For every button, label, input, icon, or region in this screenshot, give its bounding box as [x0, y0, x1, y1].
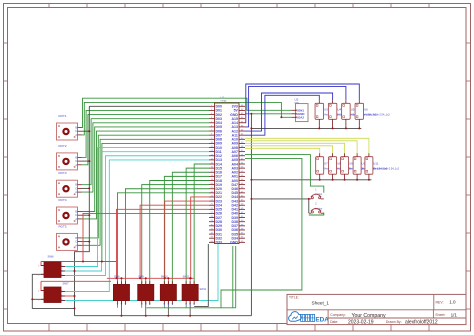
svg-text:D33: D33	[216, 241, 222, 245]
wire 5V rail above SW7	[41, 280, 111, 282]
svg-text:IOA2: IOA2	[297, 116, 304, 120]
svg-text:2: 2	[315, 204, 317, 206]
svg-text:C: C	[75, 187, 77, 190]
wire U1 A13 to header U5 (blue)	[245, 86, 346, 127]
wire SW9 middle pin to GND bus	[145, 301, 147, 316]
wire SW8 pin A to green bus	[116, 305, 118, 308]
header U10	[353, 157, 361, 175]
svg-text:GND: GND	[230, 241, 238, 245]
svg-text:1/1: 1/1	[451, 312, 458, 317]
wire green bottom bus	[147, 307, 236, 309]
svg-text:SW11: SW11	[200, 288, 207, 291]
wire SW6 pin2 to GND	[32, 274, 74, 308]
svg-text:1: 1	[315, 189, 317, 191]
svg-text:C: C	[75, 241, 77, 244]
wire encoder common rail (net COM) to U1 D00	[89, 105, 209, 107]
wire ROT5-A to U1 D07	[82, 135, 210, 238]
svg-text:SW7: SW7	[63, 281, 70, 285]
wire U1 A14 to header U10 (lime)	[245, 141, 357, 153]
wire ROT1-A to U2 pin ION1 (net ENC1A)	[82, 98, 292, 127]
svg-text:ROT4: ROT4	[59, 198, 67, 202]
wire U1 D14 to SW11 top pin	[194, 164, 209, 284]
wire 5V rail above SW6	[41, 261, 116, 263]
wire U1 D25 to 5V bus (red)	[117, 209, 210, 278]
wire U1 A14 to header U4 (blue)	[245, 93, 333, 131]
header U9	[341, 157, 349, 175]
wire U1 to bottom green bus (right loop)	[221, 158, 302, 307]
wire SW7 pin1 feed	[41, 281, 44, 290]
wire U1 D20 to SW8 top pin	[125, 189, 209, 285]
wire 5V stub to SW9	[145, 278, 147, 284]
svg-text:C: C	[75, 160, 77, 163]
svg-text:ROT2: ROT2	[59, 144, 67, 148]
svg-text:Company:: Company:	[330, 313, 346, 317]
wire ROT4-B to U1 D06	[82, 131, 210, 219]
svg-text:U9: U9	[349, 161, 353, 165]
svg-text:U11: U11	[373, 161, 378, 165]
svg-text:SW6: SW6	[48, 255, 55, 259]
header U8	[329, 157, 337, 175]
svg-text:C: C	[75, 214, 77, 217]
wire U1 A12 to header U6 (blue)	[245, 84, 359, 123]
svg-text:Date:: Date:	[330, 320, 338, 324]
header U5	[342, 103, 351, 119]
wire SW6 pin C to U1 D11	[61, 152, 209, 271]
svg-text:ROT1: ROT1	[59, 114, 67, 118]
wire SW10 pin A to green bus	[163, 305, 165, 308]
svg-text:TITLE:: TITLE:	[289, 296, 299, 300]
wire GND bus under headers U7-U11	[251, 179, 371, 181]
svg-text:REV:: REV:	[436, 300, 444, 304]
svg-text:U7: U7	[324, 161, 328, 165]
wire U1 to button S1 (green)	[245, 155, 324, 193]
wire SW8 middle pin to GND bus	[120, 301, 122, 316]
wire ROT2-B to U1 D02	[82, 115, 210, 165]
svg-text:Drawn By:: Drawn By:	[386, 320, 402, 324]
svg-text:SW11: SW11	[183, 276, 190, 279]
wire SW7 pin C to GND rail	[61, 295, 75, 297]
wire SW9 pin A to green bus	[141, 305, 143, 308]
wire U1 D21 to SW8 top pin	[117, 193, 209, 285]
header U11	[365, 157, 373, 175]
wire ROT1-B to U2 pin IOA2 (net ENC1B)	[82, 102, 292, 134]
svg-text:Sheet_1: Sheet_1	[312, 300, 330, 305]
wire GND bottom bus	[75, 315, 252, 317]
svg-text:U2: U2	[295, 97, 299, 101]
wire button S2 loop (green)	[309, 213, 324, 215]
svg-text:ROT3: ROT3	[59, 171, 67, 175]
wire SW6 pin1 feed	[41, 262, 44, 266]
wire U1 D17 to SW10 top pin	[164, 176, 209, 284]
wire SW7 pin A to U1 D33	[61, 242, 218, 300]
wire U1 D22 to 5V bus (red)	[191, 197, 209, 278]
wire GND to button S1	[251, 198, 308, 200]
svg-text:mega: mega	[221, 101, 227, 103]
wire SW11 pin A to green bus	[185, 305, 187, 308]
svg-text:Header-Male-2.54_1x2: Header-Male-2.54_1x2	[364, 114, 390, 117]
svg-text:1.0: 1.0	[449, 300, 456, 305]
wire U1 D18 to SW9 top pin	[150, 181, 209, 285]
wire U1 D26 to SW6 5V rail (red)	[83, 213, 209, 261]
wire U1 D15 to SW11 top pin	[186, 168, 209, 284]
wire GND spine vertical	[250, 114, 252, 316]
svg-text:Header-Male-2.54_1x2: Header-Male-2.54_1x2	[374, 167, 400, 170]
svg-text:Sheet:: Sheet:	[435, 313, 445, 317]
wire ROT4-A to U1 D05	[82, 127, 210, 212]
wire U1 D09 to 5V rail	[102, 143, 209, 261]
svg-text:U5: U5	[351, 108, 355, 112]
wire U1 D19 to SW9 top pin	[142, 185, 209, 285]
svg-text:U1: U1	[221, 95, 225, 99]
wire U1 D23 to 5V bus (red)	[165, 201, 209, 278]
wire U1 A15 to header U3 (blue)	[245, 95, 319, 135]
header U4	[328, 103, 337, 119]
wire 5V stub to SW8	[120, 278, 122, 284]
svg-text:U3: U3	[324, 108, 328, 112]
wire SW7 pin B to U1 D13	[61, 160, 209, 292]
wire ROT3-B to U1 D04	[82, 123, 210, 192]
wire SW10 middle pin to GND bus	[167, 301, 169, 316]
svg-text:C: C	[75, 130, 77, 133]
IC U1 (MEGA module)	[215, 103, 240, 244]
wire ROT2-A to U1 D01	[82, 110, 210, 157]
wire SW11 bottom pin to GND	[194, 244, 208, 306]
header U7	[316, 157, 324, 175]
wire U1 D34 drop	[235, 246, 237, 308]
svg-text:Your Company: Your Company	[352, 313, 387, 319]
wire U1 A12 to header U8 (lime)	[245, 146, 333, 153]
wire U1 D35 drop	[232, 246, 234, 308]
wire SW6 pin B to U1 D10	[61, 148, 209, 267]
wire button S1 to button S2 left pins	[308, 199, 310, 213]
wire SW7 pin2 to GND	[32, 298, 44, 300]
wire 5V stub to SW10	[167, 278, 169, 284]
wire U1 A13 to header U9 (lime)	[245, 143, 345, 153]
wire 5V stub to SW11	[189, 278, 191, 284]
wire U1 D24 to 5V bus (red)	[140, 205, 209, 278]
wire U1 A15 to header U11 (lime)	[245, 138, 369, 153]
wire SW11 middle pin to GND bus	[189, 301, 191, 316]
wire SW6 pin A to U1 D12	[61, 156, 209, 276]
title block	[287, 294, 466, 324]
wire GND bus under headers U3-U6	[251, 127, 361, 129]
junction dots	[250, 113, 252, 115]
wire U2 pin IGND to GND spine	[245, 113, 291, 115]
svg-text:1: 1	[38, 266, 40, 268]
header U6	[355, 103, 364, 119]
svg-text:alexfroloff2012: alexfroloff2012	[405, 319, 438, 325]
wire ROT5-B to U1 D08	[82, 139, 210, 245]
svg-text:ROT5: ROT5	[59, 224, 67, 228]
wire U1 A11 to header U7 (lime)	[245, 148, 320, 153]
wire ROT3-A to U1 D03	[82, 119, 210, 185]
svg-text:2023-02-19: 2023-02-19	[348, 319, 374, 325]
svg-text:1: 1	[38, 291, 40, 293]
wire 5V bus above bottom switches	[107, 277, 194, 279]
header U3	[315, 103, 324, 119]
svg-text:U6: U6	[364, 108, 368, 112]
logo JLC EDA	[289, 312, 302, 322]
wire U1 D16 to SW10 top pin	[172, 172, 209, 284]
svg-text:U4: U4	[337, 108, 341, 112]
svg-text:EDA: EDA	[315, 317, 329, 324]
